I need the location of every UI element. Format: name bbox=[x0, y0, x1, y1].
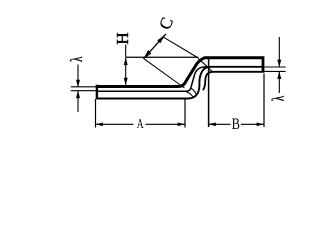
H down arrowhead bbox=[124, 78, 128, 86]
svg-text:λ: λ bbox=[270, 96, 289, 101]
A dimension line left part bbox=[96, 123, 134, 125]
svg-text:A: A bbox=[137, 115, 144, 131]
C dimension line bbox=[143, 34, 166, 59]
H up arrowhead bbox=[124, 58, 128, 66]
right end edge bbox=[262, 56, 265, 72]
B right arrowhead bbox=[257, 123, 264, 127]
right lambda extension line upper bbox=[264, 66, 285, 68]
left lambda extension line lower bbox=[71, 90, 96, 92]
B dimension line right part bbox=[241, 123, 264, 125]
A dimension line right part bbox=[146, 123, 186, 125]
mid thickness line: left mid through bend to right mid bbox=[97, 67, 263, 91]
left lambda down arrowhead bbox=[76, 80, 80, 88]
right tail mid line overlay (heavier) bbox=[209, 66, 262, 68]
right lambda extension line lower bbox=[264, 70, 285, 72]
top outline line (thick): left tail top, slope upper edge, right tail top bbox=[96, 58, 263, 87]
bottom outline: left tail bottom, slope lower edge curving to upper fold bbox=[97, 67, 209, 99]
left lambda dimension line upper segment bbox=[77, 65, 79, 87]
fold line at lower bend bbox=[186, 91, 194, 97]
right lambda down arrowhead bbox=[277, 60, 281, 68]
left end edge bbox=[96, 85, 98, 100]
svg-text:H: H bbox=[113, 32, 132, 44]
C upper arrowhead bbox=[157, 35, 165, 43]
A left extension line bbox=[95, 99, 97, 128]
A left arrowhead bbox=[96, 123, 103, 127]
svg-text:λ: λ bbox=[68, 56, 87, 61]
fold line at upper bend bbox=[198, 58, 212, 71]
C extension line upper (to bend top corner) bbox=[163, 37, 198, 58]
inner fold arc at lower bend bbox=[191, 88, 196, 94]
B left extension line bbox=[208, 59, 210, 127]
C lower arrowhead bbox=[143, 50, 151, 59]
svg-text:C: C bbox=[155, 15, 177, 33]
left lambda dimension line lower segment bbox=[77, 91, 79, 112]
A right extension line bbox=[184, 99, 186, 128]
C extension line lower (to bend bottom corner) bbox=[144, 59, 185, 88]
left lambda extension line upper bbox=[71, 86, 96, 88]
right lambda up arrowhead bbox=[277, 72, 281, 80]
H dimension line bbox=[125, 58, 127, 85]
H extension line bbox=[125, 56, 198, 58]
right lambda dimension line lower segment bbox=[278, 72, 280, 93]
svg-text:B: B bbox=[232, 115, 240, 133]
H dimension line stub above bbox=[125, 45, 127, 58]
right tail bottom edge line with down hook at bend bbox=[203, 72, 262, 91]
B left arrowhead bbox=[208, 123, 215, 127]
A right arrowhead bbox=[178, 123, 185, 127]
left lambda up arrowhead bbox=[76, 91, 80, 99]
B right extension line bbox=[263, 74, 265, 128]
B dimension line left part bbox=[208, 123, 230, 125]
right lambda dimension line upper segment bbox=[278, 37, 280, 66]
